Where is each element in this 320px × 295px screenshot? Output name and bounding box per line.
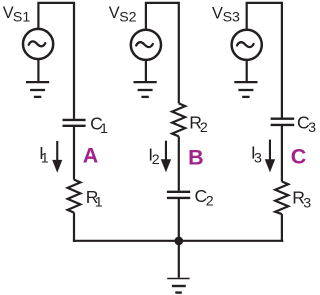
- svg-text:3: 3: [308, 120, 316, 136]
- ground under VS2: [134, 82, 157, 97]
- wire bottom bus: [73, 240, 283, 242]
- wire R1 to bottom: [73, 213, 75, 242]
- resistor R1: [68, 180, 81, 213]
- voltage source VS2: [131, 30, 161, 60]
- ground at bottom node: [167, 279, 189, 293]
- svg-text:3: 3: [303, 196, 311, 212]
- wire branch3 top loop: [247, 3, 282, 118]
- wire R2 to C2: [178, 136, 180, 190]
- wire branch1 top loop: [38, 3, 74, 119]
- capacitor C1: [63, 120, 86, 126]
- svg-text:B: B: [188, 145, 204, 169]
- svg-text:V: V: [109, 4, 120, 22]
- svg-text:2: 2: [200, 120, 208, 136]
- current arrow I2: [161, 141, 171, 173]
- svg-text:A: A: [83, 144, 99, 168]
- resistor R2: [172, 103, 185, 136]
- resistor R3: [275, 182, 288, 215]
- wire source1 bottom stem: [37, 60, 39, 81]
- ground under VS1: [26, 82, 49, 97]
- wire C1 to R1: [73, 127, 75, 180]
- wire source3 bottom stem: [246, 61, 248, 81]
- capacitor C2: [167, 192, 190, 198]
- node junction dot (common node): [174, 237, 183, 246]
- ground under VS3: [234, 82, 257, 97]
- wire C3 to R3: [281, 126, 283, 182]
- svg-text:S2: S2: [119, 9, 136, 25]
- svg-text:S1: S1: [13, 10, 30, 26]
- capacitor C3: [271, 119, 295, 125]
- wire R3 to bottom: [281, 214, 283, 242]
- svg-text:V: V: [212, 4, 223, 22]
- voltage source VS3: [232, 30, 262, 60]
- current arrow I1: [52, 141, 62, 173]
- svg-text:1: 1: [95, 195, 103, 211]
- svg-text:C: C: [291, 144, 307, 168]
- svg-text:2: 2: [206, 194, 214, 210]
- svg-text:1: 1: [41, 150, 49, 166]
- current arrow I3: [265, 140, 275, 173]
- wire C2 to node: [178, 199, 180, 241]
- svg-text:S3: S3: [223, 10, 240, 26]
- wire branch2 top loop: [146, 3, 179, 104]
- svg-text:2: 2: [152, 152, 160, 168]
- wire node to ground: [178, 241, 180, 278]
- svg-text:3: 3: [254, 150, 262, 166]
- wire source2 bottom stem: [145, 61, 147, 81]
- voltage source VS1: [23, 29, 53, 59]
- svg-text:1: 1: [100, 121, 108, 137]
